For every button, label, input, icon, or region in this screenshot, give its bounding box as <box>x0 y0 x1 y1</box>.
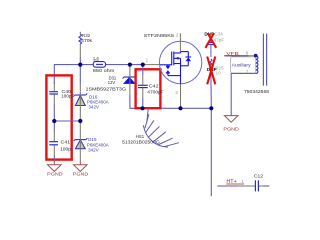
node C42 bottom junction <box>140 106 144 110</box>
wire bottom source rail <box>143 107 212 109</box>
svg-text:C41: C41 <box>61 139 71 145</box>
red highlight rect 1 <box>46 75 71 159</box>
wire junction row mid <box>54 120 80 122</box>
node HT+ junction <box>209 106 213 110</box>
wire VFB net <box>224 55 248 57</box>
capacitor C34 (DNP) <box>204 32 224 58</box>
capacitor C12 <box>254 173 269 191</box>
svg-text:Auxiliary: Auxiliary <box>232 62 252 68</box>
svg-text:L4: L4 <box>93 56 99 62</box>
DNP cross X2 <box>207 57 215 85</box>
DNP cross X1 <box>205 33 216 48</box>
svg-text:342V: 342V <box>88 147 99 153</box>
svg-text:4700pF: 4700pF <box>147 90 163 96</box>
transistor internals <box>160 52 191 84</box>
wire gate net L4 to C42 node <box>106 64 143 66</box>
wire HT+ vertical <box>210 108 212 196</box>
svg-text:HS1: HS1 <box>136 134 145 139</box>
node transformer pin6 <box>254 54 258 58</box>
wire aux pin7 to pgnd <box>231 73 255 115</box>
node source junction <box>178 106 182 110</box>
svg-text:513201B02500G: 513201B02500G <box>122 139 160 144</box>
svg-text:D15: D15 <box>88 137 97 143</box>
svg-text:P6KE400A: P6KE400A <box>87 99 110 105</box>
resistor R32 <box>79 32 93 65</box>
svg-text:PGND: PGND <box>73 171 89 177</box>
svg-text:C34: C34 <box>214 32 223 37</box>
svg-text:47pF: 47pF <box>214 37 225 42</box>
capacitor C42 <box>138 65 164 109</box>
svg-text:C42: C42 <box>149 84 159 90</box>
svg-text:10: 10 <box>216 71 222 76</box>
transistor source pin stub <box>180 84 182 109</box>
ground PGND right <box>223 116 239 133</box>
transformer T1 auxiliary winding <box>230 34 269 95</box>
node D16/D15 junction <box>78 119 82 123</box>
svg-text:C12: C12 <box>254 173 264 179</box>
node C42 junction <box>141 63 145 67</box>
capacitor C40 <box>49 82 74 121</box>
heatsink HS1 <box>143 109 179 148</box>
svg-text:1SMB5927BT3G: 1SMB5927BT3G <box>86 87 127 93</box>
transformer core <box>262 34 264 86</box>
svg-text:342V: 342V <box>88 104 99 110</box>
node R32/D16 junction <box>78 63 82 67</box>
resistor R25 (DNP) <box>207 59 224 108</box>
wire main gate net left segment <box>54 65 93 84</box>
transistor drain pin stub <box>179 33 181 52</box>
svg-text:470k: 470k <box>81 38 92 44</box>
wire D31 anode to bottom rail <box>130 95 143 108</box>
svg-text:100pF: 100pF <box>61 94 74 100</box>
ground PGND mid <box>73 161 89 178</box>
svg-text:12V: 12V <box>108 80 116 86</box>
diode D16 (TVS) <box>73 65 109 121</box>
inductor L4 <box>93 56 115 74</box>
node C40/C41 junction <box>52 119 56 123</box>
svg-text:750342568: 750342568 <box>244 89 269 94</box>
svg-text:850 ohm: 850 ohm <box>93 68 115 74</box>
capacitor C41 <box>49 121 71 161</box>
svg-text:PGND: PGND <box>47 171 63 177</box>
svg-text:STF2N95K5: STF2N95K5 <box>144 33 175 39</box>
ground PGND left <box>47 161 63 178</box>
node D31 junction <box>128 63 132 67</box>
svg-text:100p: 100p <box>60 147 71 153</box>
red highlight rect 2 <box>136 69 161 108</box>
wire HT+ horizontal <box>217 185 238 187</box>
wire gate pin stub to mosfet <box>143 64 160 66</box>
zener D31 <box>86 65 137 95</box>
svg-text:PGND: PGND <box>223 126 239 132</box>
transistor Q mosfet circle <box>159 41 201 83</box>
diode D15 (TVS) <box>74 121 110 161</box>
